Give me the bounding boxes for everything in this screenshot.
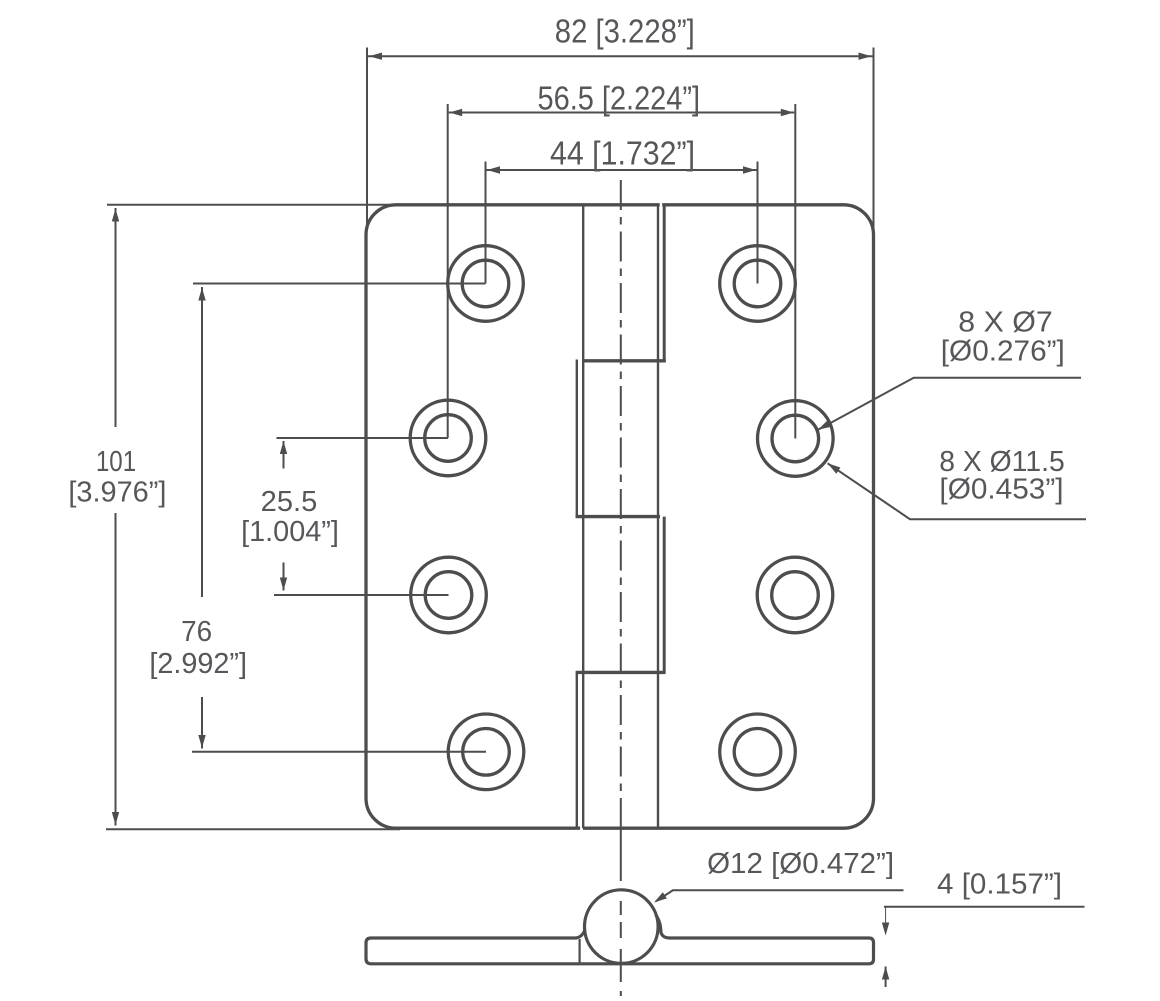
svg-text:[3.976”]: [3.976”] bbox=[68, 476, 166, 508]
svg-text:4 [0.157”]: 4 [0.157”] bbox=[937, 868, 1062, 900]
svg-text:56.5 [2.224”]: 56.5 [2.224”] bbox=[538, 80, 701, 117]
svg-text:82 [3.228”]: 82 [3.228”] bbox=[555, 13, 695, 50]
svg-text:[Ø0.276”]: [Ø0.276”] bbox=[941, 335, 1065, 367]
svg-text:[Ø0.453”]: [Ø0.453”] bbox=[939, 474, 1063, 506]
svg-text:76: 76 bbox=[181, 616, 212, 648]
svg-text:8 X Ø7: 8 X Ø7 bbox=[958, 307, 1052, 339]
svg-text:[1.004”]: [1.004”] bbox=[241, 516, 339, 548]
svg-text:101: 101 bbox=[96, 446, 136, 478]
svg-text:44 [1.732”]: 44 [1.732”] bbox=[550, 135, 695, 172]
svg-text:[2.992”]: [2.992”] bbox=[149, 648, 247, 680]
svg-text:25.5: 25.5 bbox=[261, 486, 318, 518]
svg-text:Ø12 [Ø0.472”]: Ø12 [Ø0.472”] bbox=[707, 848, 894, 880]
